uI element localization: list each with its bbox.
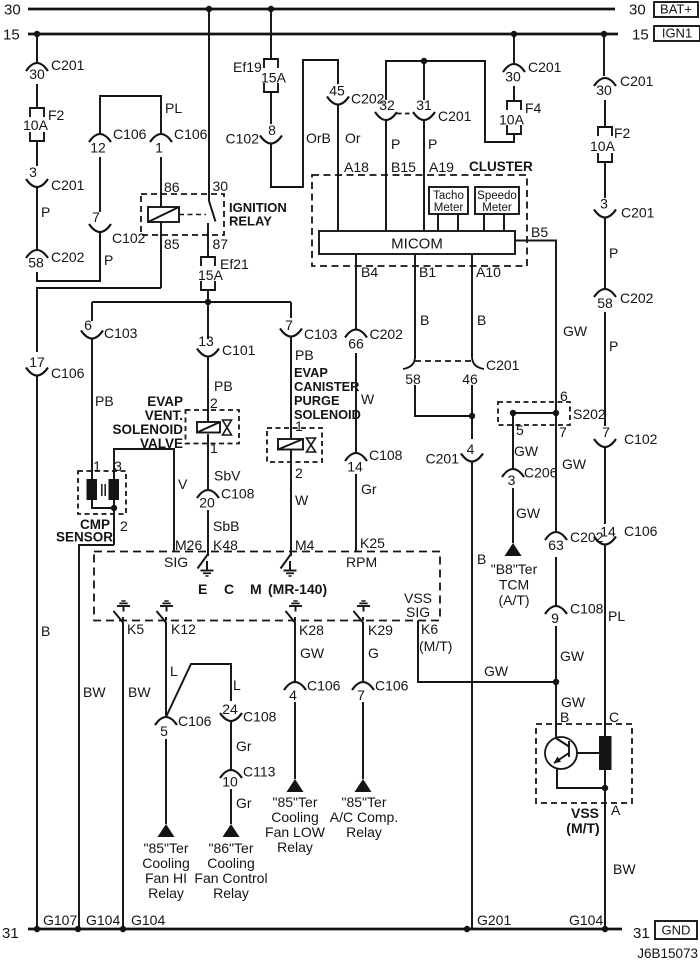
svg-text:P: P <box>391 136 400 152</box>
svg-text:S202: S202 <box>573 406 606 422</box>
node junction on bus 15 at right column <box>601 31 607 37</box>
wire C106-1 to relay pin 86 <box>161 157 180 207</box>
svg-text:30: 30 <box>29 66 45 82</box>
terminal 85 cooling fan HI relay <box>142 824 189 901</box>
svg-text:30: 30 <box>596 82 612 98</box>
wire bus 15 (IGN1) <box>28 33 618 36</box>
svg-text:W: W <box>361 391 375 407</box>
svg-text:GW: GW <box>562 456 587 472</box>
connector C202 pin 45 <box>327 83 385 107</box>
wire B4 MICOM to C202-66 <box>356 254 378 329</box>
svg-text:C: C <box>609 709 619 725</box>
svg-text:30: 30 <box>629 2 646 19</box>
wire CMP pin1 bottom to pin2 node <box>92 500 114 508</box>
svg-text:B: B <box>41 623 50 639</box>
VSS transistor Q1 circle <box>545 737 577 769</box>
svg-text:6: 6 <box>84 317 92 333</box>
svg-text:C106: C106 <box>178 713 212 729</box>
node ground G104 (CMP) <box>75 926 81 932</box>
connector C106 pin 1 <box>150 126 208 156</box>
ECM internal ground switch at K48 <box>198 552 214 577</box>
wire PB C103-6 to CMP pin 1 <box>92 339 114 480</box>
svg-text:58: 58 <box>405 371 421 387</box>
wire sensor element to output node <box>604 770 606 788</box>
svg-text:F4: F4 <box>525 100 542 116</box>
node ground G104 (K5) <box>120 926 126 932</box>
svg-text:SbV: SbV <box>214 468 241 484</box>
wire tacho meter leg 1 <box>437 214 439 231</box>
svg-text:VENT.: VENT. <box>145 408 183 423</box>
wire bus15 to C201-30 right <box>603 34 605 76</box>
label K6 (M/T) <box>419 621 452 654</box>
svg-text:C102: C102 <box>226 131 260 147</box>
svg-text:10A: 10A <box>590 138 616 154</box>
connector C201 pin 30 (F4 col) <box>503 59 562 85</box>
svg-text:"85"Ter: "85"Ter <box>342 794 387 810</box>
node junction on bus 15 at fuse F4 column <box>511 31 517 37</box>
svg-text:A19: A19 <box>429 159 454 175</box>
wire VSS emitter to output node <box>557 768 605 788</box>
svg-text:OrB: OrB <box>306 130 331 146</box>
svg-text:P: P <box>41 204 50 220</box>
wire relay85 elbow to left edge <box>37 288 161 352</box>
ECM internal ground switch at M4 <box>281 552 297 577</box>
terminal B8 TCM <box>491 543 538 608</box>
wire Ef21 to branch node <box>207 290 209 302</box>
svg-text:J6B15073: J6B15073 <box>637 946 698 961</box>
svg-text:C106: C106 <box>307 678 341 694</box>
connector C201 pin 58 (dashed pair) <box>403 356 421 388</box>
fuse Ef21 15A <box>198 256 249 290</box>
svg-text:B: B <box>477 551 486 567</box>
wire bus30 to relay pin 30 <box>209 9 228 201</box>
wire GW ECM K28 to C106-4 <box>295 622 325 682</box>
CMP sensor element right bar <box>109 479 120 500</box>
svg-text:PB: PB <box>295 347 314 363</box>
svg-text:VALVE: VALVE <box>140 436 183 451</box>
wire SbB C108-20 to ECM K48 <box>208 510 239 552</box>
svg-text:B: B <box>560 709 569 725</box>
connector C102 pin 8 <box>226 122 282 147</box>
svg-text:Gr: Gr <box>236 738 252 754</box>
connector C201 pin 4 <box>426 441 483 467</box>
svg-text:C206: C206 <box>524 465 558 481</box>
svg-text:Gr: Gr <box>361 481 377 497</box>
node branch junction below Ef21 <box>205 299 211 305</box>
svg-text:5: 5 <box>516 422 524 438</box>
wire Gr C108-24 to C113-10 <box>231 721 252 770</box>
wire Gr C108-14 to ECM K25 <box>356 474 377 552</box>
label K12 <box>171 621 196 637</box>
wire Or C202-45 to MICOM A18 <box>338 105 369 232</box>
svg-text:C106: C106 <box>624 523 658 539</box>
svg-text:10A: 10A <box>23 117 49 133</box>
svg-text:C201: C201 <box>438 108 472 124</box>
wire fuse F4 elbow to 32/31 bracket <box>386 61 514 142</box>
wire branch diagonal to C108-24 <box>166 664 241 717</box>
wire branch left drop <box>91 302 93 321</box>
svg-text:M: M <box>250 581 262 597</box>
svg-text:SIG: SIG <box>406 604 430 620</box>
svg-text:K28: K28 <box>299 622 324 638</box>
svg-text:G104: G104 <box>131 912 165 928</box>
wire bus 30 (BAT+) <box>28 8 615 11</box>
label G201 <box>477 912 511 928</box>
wire B MICOM B1 to C201-58 <box>415 254 436 358</box>
svg-text:13: 13 <box>198 333 214 349</box>
wire P C202-58 to C102-7 right <box>605 312 618 426</box>
svg-text:K29: K29 <box>368 622 393 638</box>
connector C201 pin 3 <box>26 164 85 193</box>
ignition relay K1 dashed box <box>141 194 224 235</box>
wire GW C108-9 to base node <box>556 626 585 682</box>
wire branch drop to C103-7 <box>290 302 292 318</box>
svg-text:7: 7 <box>559 424 567 440</box>
fuse F2 10A (left) <box>23 107 65 141</box>
svg-text:Ef21: Ef21 <box>220 256 249 272</box>
node junction on bus 15 at left column <box>34 31 40 37</box>
svg-text:Meter: Meter <box>482 202 512 214</box>
VSS transistor collector link <box>577 752 599 754</box>
wire P C201-32 to MICOM B15 <box>386 120 416 231</box>
svg-text:C106: C106 <box>51 365 85 381</box>
svg-text:C101: C101 <box>222 342 256 358</box>
label CMP SENSOR <box>56 517 113 545</box>
wire W purge solenoid to ECM M4 <box>291 450 309 552</box>
wire P C201-31 to MICOM A19 <box>424 120 454 231</box>
svg-text:C103: C103 <box>304 326 338 342</box>
connector C108 pin 14 <box>345 447 403 475</box>
svg-text:"86"Ter: "86"Ter <box>209 840 254 856</box>
label G107 <box>43 912 77 928</box>
svg-text:10: 10 <box>222 774 238 790</box>
label 30 left <box>4 2 21 19</box>
wire relay pin 87 to fuse Ef21 <box>208 223 228 257</box>
connector C201 pin 32 <box>375 97 397 120</box>
wire bracket drop to C201-31 <box>423 61 425 100</box>
wire Gr C113-10 to fan control relay terminal <box>231 789 252 824</box>
svg-text:B15: B15 <box>391 159 416 175</box>
svg-text:V: V <box>178 476 188 492</box>
svg-text:P: P <box>609 245 618 261</box>
wire GW node to transistor base <box>556 682 586 738</box>
svg-text:10A: 10A <box>499 112 525 128</box>
wire C201-30 to fuse F4 <box>513 86 515 101</box>
svg-text:GW: GW <box>560 648 585 664</box>
tacho meter box <box>429 187 468 214</box>
connector C201 pin 30 (right) <box>594 73 654 98</box>
svg-text:Fan Control: Fan Control <box>194 870 267 886</box>
wire GW S202 to C202-63 <box>556 413 587 533</box>
svg-text:C: C <box>224 581 234 597</box>
svg-text:3: 3 <box>29 164 37 180</box>
ECM internal ground switch at K28 <box>286 601 303 623</box>
connector C106 pin 12 <box>89 126 147 156</box>
label IGNITION RELAY <box>229 200 287 229</box>
svg-text:PL: PL <box>608 608 625 624</box>
wire C102-7 to C106-14 right <box>604 447 606 524</box>
svg-text:B: B <box>420 312 429 328</box>
node ground G104 (right) <box>602 926 608 932</box>
svg-text:EVAP: EVAP <box>294 365 328 380</box>
terminal 85 cooling fan LOW relay <box>265 779 326 855</box>
label J6B15073 <box>637 946 698 961</box>
svg-text:F2: F2 <box>614 125 631 141</box>
svg-text:TCM: TCM <box>499 577 529 593</box>
wire splice S202 internal <box>513 412 556 414</box>
wire GW C206-3 to TCM terminal <box>513 488 541 543</box>
VSS transistor base lead <box>557 739 570 747</box>
connector C201 dashed link 58-46 <box>415 357 520 373</box>
svg-text:"85"Ter: "85"Ter <box>273 794 318 810</box>
wire B MICOM A10 to C201-46 <box>472 254 501 357</box>
label CMP pin 3 <box>114 458 122 474</box>
label PL <box>165 100 182 116</box>
svg-text:66: 66 <box>348 336 364 352</box>
svg-text:7: 7 <box>285 317 293 333</box>
connector C201 dashed link 32-31 <box>397 108 472 124</box>
CMP sensor center marks <box>102 484 105 496</box>
svg-text:Relay: Relay <box>148 885 184 901</box>
svg-text:20: 20 <box>199 495 215 511</box>
wire P below C102-7 <box>100 232 113 281</box>
label SIG <box>164 554 188 570</box>
terminal box GND <box>655 921 697 939</box>
svg-text:C108: C108 <box>243 709 277 725</box>
svg-text:G104: G104 <box>569 912 603 928</box>
svg-text:K6: K6 <box>421 621 438 637</box>
wire SbV vent valve to C108-20 <box>208 434 241 490</box>
svg-text:G107: G107 <box>43 912 77 928</box>
svg-text:SbB: SbB <box>213 518 239 534</box>
ECM (MR-140) dashed box <box>94 552 440 621</box>
svg-text:GW: GW <box>300 645 325 661</box>
svg-text:C106: C106 <box>113 126 147 142</box>
fuse F2 10A (right) <box>590 125 631 162</box>
MICOM box U1 <box>319 231 515 254</box>
svg-text:C201: C201 <box>528 59 562 75</box>
svg-text:58: 58 <box>597 295 613 311</box>
connector C106 pin 5 <box>155 713 212 739</box>
wire C106-5 to fan HI relay terminal <box>165 739 167 824</box>
node VSS output A <box>602 785 608 791</box>
wire bus15 to C201-30 (F4 col) <box>513 34 515 64</box>
label VSS (M/T) <box>566 805 599 836</box>
wire branch Ef21 to C103-6 and C103-7 <box>92 301 291 303</box>
VSS M/T sensor dashed box <box>536 724 632 803</box>
EVAP vent solenoid coil <box>197 422 220 433</box>
svg-text:C108: C108 <box>570 601 604 617</box>
connector C106 pin 17 <box>26 354 85 381</box>
svg-text:RPM: RPM <box>346 554 377 570</box>
svg-text:Relay: Relay <box>213 885 249 901</box>
wire OrB C102-8 elbow up <box>271 60 338 187</box>
svg-text:CLUSTER: CLUSTER <box>469 159 533 174</box>
node junction 58/46 merge <box>469 413 475 419</box>
svg-text:SOLENOID: SOLENOID <box>112 422 183 437</box>
svg-text:15: 15 <box>3 27 20 44</box>
svg-text:F2: F2 <box>48 107 65 123</box>
svg-text:Fan LOW: Fan LOW <box>265 824 326 840</box>
wire C106-7 to A/C relay terminal <box>362 702 364 779</box>
ignition relay coil <box>148 207 179 222</box>
svg-text:PL: PL <box>165 100 182 116</box>
svg-text:SENSOR: SENSOR <box>56 530 113 545</box>
wire C202-63 to C108-9 <box>555 557 557 606</box>
wire tacho meter leg 2 <box>457 214 459 231</box>
svg-text:"85"Ter: "85"Ter <box>144 840 189 856</box>
svg-text:BW: BW <box>613 861 636 877</box>
svg-text:8: 8 <box>268 122 276 138</box>
wire L ECM K12 to C106-5 <box>166 622 178 716</box>
label VSS pin C <box>609 709 619 725</box>
wire bus15 to connector C201-30 <box>36 34 38 63</box>
connector C102 pin 7 <box>89 209 146 246</box>
svg-text:C201: C201 <box>51 57 85 73</box>
connector C103 pin 7 <box>280 317 338 342</box>
svg-text:L: L <box>233 677 241 693</box>
svg-text:CANISTER: CANISTER <box>294 379 359 394</box>
svg-text:C113: C113 <box>243 764 276 780</box>
wire C106-12 to C102-7 <box>99 157 101 212</box>
wire P C201-3 to C202-58 right <box>605 218 618 289</box>
svg-text:E: E <box>198 581 207 597</box>
label 15 right <box>632 27 649 44</box>
svg-text:C108: C108 <box>369 447 403 463</box>
label K5 <box>127 621 144 637</box>
svg-text:46: 46 <box>462 371 478 387</box>
label 30 right <box>629 2 646 19</box>
label ECM (MR-140) <box>198 581 327 597</box>
svg-text:5: 5 <box>160 723 168 739</box>
connector C101 pin 13 <box>197 333 256 358</box>
connector C108 pin 20 <box>197 486 255 511</box>
wire fuse Ef19 to C102-8 <box>270 92 272 124</box>
EVAP vent valve symbol <box>223 420 232 435</box>
wire C201-58 elbow to node <box>415 385 472 416</box>
svg-text:Cooling: Cooling <box>271 809 318 825</box>
wire B/BW C106-17 to ground G107 <box>37 376 50 930</box>
connector C106 pin 14 (right) <box>594 523 658 545</box>
svg-text:C202: C202 <box>51 249 85 265</box>
EVAP purge solenoid coil <box>278 439 303 450</box>
svg-text:A/C Comp.: A/C Comp. <box>330 809 398 825</box>
label 15 left <box>3 27 20 44</box>
svg-text:31: 31 <box>633 925 650 942</box>
svg-text:P: P <box>428 136 437 152</box>
svg-text:P: P <box>609 338 618 354</box>
EVAP vent solenoid valve dashed box <box>186 410 240 444</box>
svg-text:6: 6 <box>560 388 568 404</box>
svg-text:C201: C201 <box>426 451 460 467</box>
wire C201-30 to fuse F2 <box>36 84 38 108</box>
svg-text:VSS: VSS <box>571 805 599 821</box>
svg-text:4: 4 <box>289 687 297 703</box>
CMP sensor dashed box <box>78 471 126 514</box>
svg-text:Fan HI: Fan HI <box>145 870 187 886</box>
svg-text:GW: GW <box>514 443 539 459</box>
svg-text:15A: 15A <box>261 70 287 86</box>
svg-text:BW: BW <box>128 684 151 700</box>
svg-text:Tacho: Tacho <box>433 190 464 202</box>
svg-text:(M/T): (M/T) <box>566 820 599 836</box>
svg-text:C102: C102 <box>112 230 146 246</box>
label RPM <box>346 554 377 570</box>
fuse Ef19 15A <box>233 59 287 92</box>
label M4 <box>295 537 315 553</box>
connector C103 pin 6 <box>81 317 138 341</box>
terminal 85 A/C compressor relay <box>330 779 398 840</box>
connector C102 pin 7 (right) <box>594 424 658 447</box>
svg-text:C201: C201 <box>486 357 520 373</box>
wire bracket over C106-12 and C106-1 <box>100 96 161 133</box>
node ground G107 <box>34 926 40 932</box>
node junction 31 branch <box>421 58 427 64</box>
wire fuse F2 to C201-3 right <box>604 162 606 198</box>
wire G ECM K29 to C106-7 <box>363 622 379 682</box>
wire C201-46 through node to C201-4 <box>471 385 473 439</box>
svg-text:15A: 15A <box>198 267 224 283</box>
svg-text:GND: GND <box>662 923 691 938</box>
label 31 right <box>633 925 650 942</box>
wire P C201-3 to C202-58 <box>37 187 50 250</box>
svg-text:(M/T): (M/T) <box>419 638 452 654</box>
node ground G201 <box>464 926 470 932</box>
svg-text:4: 4 <box>467 441 475 457</box>
svg-text:GW: GW <box>516 505 541 521</box>
connector C202 pin 66 <box>345 326 403 352</box>
CMP sensor element left bar <box>87 479 98 500</box>
svg-text:A18: A18 <box>344 159 369 175</box>
VSS transistor base bar <box>568 741 570 757</box>
wire relay pin 85 <box>161 222 180 288</box>
svg-text:17: 17 <box>29 354 45 370</box>
connector C201 pin 3 (right) <box>594 196 655 221</box>
connector C108 pin 9 <box>545 601 604 627</box>
svg-text:BW: BW <box>83 684 106 700</box>
connector C206 pin 3 <box>502 465 558 489</box>
svg-text:P: P <box>104 252 113 268</box>
svg-text:12: 12 <box>90 140 106 156</box>
svg-text:1: 1 <box>155 140 163 156</box>
svg-text:K12: K12 <box>171 621 196 637</box>
speedo meter box <box>475 187 519 214</box>
connector C202 pin 58 (right) <box>594 289 654 311</box>
wire bus30 to fuse Ef19 <box>270 9 272 59</box>
svg-text:PURGE: PURGE <box>294 393 340 408</box>
wire C201-30 to fuse F2 right <box>604 100 606 127</box>
label G104 (CMP) <box>86 912 120 928</box>
svg-text:K25: K25 <box>360 535 385 551</box>
connector C202 pin 63 <box>545 529 604 553</box>
svg-text:30: 30 <box>4 2 21 19</box>
svg-text:(A/T): (A/T) <box>498 592 529 608</box>
node junction on bus 30 at relay pin 30 column <box>206 6 212 12</box>
svg-text:K5: K5 <box>127 621 144 637</box>
wire PL C106-14 to VSS sensor C <box>605 545 625 737</box>
ECM internal ground switch at K29 <box>354 601 371 623</box>
instrument cluster dashed box <box>312 175 527 266</box>
node junction on bus 30 at fuse Ef19 column <box>268 6 274 12</box>
wire PB C103-7 to purge solenoid <box>291 337 314 439</box>
svg-text:86: 86 <box>164 179 180 195</box>
svg-text:A: A <box>611 802 621 818</box>
terminal box IGN1 <box>654 26 700 42</box>
node S202 left <box>510 410 516 416</box>
svg-text:C106: C106 <box>174 126 208 142</box>
svg-text:9: 9 <box>551 610 559 626</box>
svg-text:B5: B5 <box>531 224 548 240</box>
